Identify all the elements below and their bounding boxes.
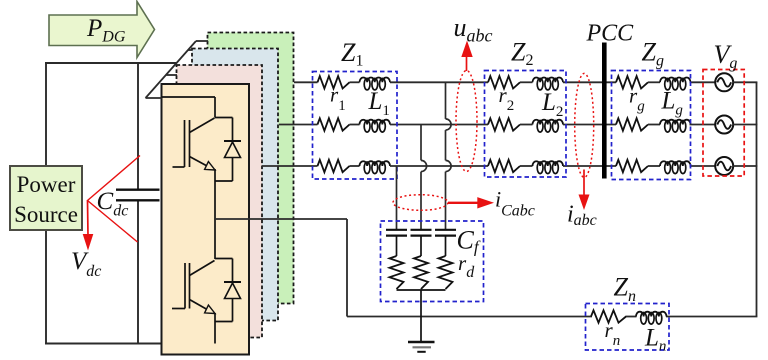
inductor Lg phase 3 xyxy=(660,161,690,166)
wire phase 2 Z2 to Zg xyxy=(563,124,616,126)
capacitor C_f phase 1 xyxy=(386,229,407,231)
svg-text:Ln: Ln xyxy=(644,325,666,355)
wire bottom neutral line to Zn xyxy=(347,316,592,318)
wire fan stub green xyxy=(196,40,208,42)
resistor rg phase 2 xyxy=(616,118,648,130)
inverter phase layer box (blue) xyxy=(192,49,278,321)
resistor r_d phase 1 xyxy=(390,256,404,289)
wire Zn internal xyxy=(626,316,637,318)
PCC bus bar xyxy=(602,43,607,179)
svg-text:Vg: Vg xyxy=(714,40,738,72)
svg-text:Cdc: Cdc xyxy=(97,188,129,220)
wire phase 2 inverter to Z1 xyxy=(279,124,318,126)
resistor r_n xyxy=(591,310,626,322)
wire phase 3 Zg to source xyxy=(690,165,716,167)
svg-text:Vdc: Vdc xyxy=(71,248,101,280)
wire power source bottom lead xyxy=(45,230,47,345)
AC source V_g phase 1 xyxy=(715,73,733,91)
arrow i_abc xyxy=(583,170,585,197)
wire phase 3 inverter to Z1 xyxy=(262,165,318,167)
V_dc red arrow xyxy=(87,201,90,237)
wire to ground xyxy=(420,290,422,342)
impedance block Zn box xyxy=(586,304,670,351)
svg-text:rd: rd xyxy=(458,251,475,281)
resistor r1 phase 2 xyxy=(318,118,350,130)
svg-text:Power: Power xyxy=(17,172,76,197)
transistor Q1 (top IGBT) xyxy=(173,118,216,170)
wire inverter top rail xyxy=(162,96,216,98)
wire phase 1 inverter to Z1 xyxy=(294,81,318,83)
svg-text:uabc: uabc xyxy=(454,13,493,46)
capacitor C_dc plates xyxy=(116,189,160,191)
wire DC bus upper segment xyxy=(137,63,139,189)
wire power source top lead xyxy=(45,63,47,167)
resistor rg phase 1 xyxy=(616,76,648,88)
wire phase 1 Z2 to Zg xyxy=(563,81,616,83)
resistor r1 phase 1 xyxy=(318,76,350,88)
svg-text:Lg: Lg xyxy=(661,88,684,119)
arrow i_Cabc xyxy=(448,202,479,204)
svg-text:L1: L1 xyxy=(368,88,390,119)
svg-text:iabc: iabc xyxy=(567,202,597,230)
inverter phase layer box (green, back) xyxy=(208,33,294,304)
wire phase 1 xyxy=(648,81,660,83)
wire phase 3 xyxy=(648,165,660,167)
node u_abc measurement ellipse xyxy=(456,71,477,172)
capacitor C_f phase 3 xyxy=(435,229,456,231)
AC source V_g phase 3 xyxy=(715,157,733,175)
wire fan stub blue xyxy=(188,49,193,51)
wire phase 2 source to right bus xyxy=(733,124,757,126)
resistor r1 phase 3 xyxy=(318,160,350,172)
wire phase 1 source to right bus xyxy=(733,81,757,83)
inverter main box (orange, front) xyxy=(162,84,250,355)
ground xyxy=(408,342,435,352)
svg-text:PCC: PCC xyxy=(586,21,635,47)
impedance block Z1 box xyxy=(313,72,398,180)
inductor L1 phase 2 xyxy=(360,120,390,125)
wire neutral drop xyxy=(346,219,348,317)
wire fan stub pink xyxy=(167,74,178,76)
resistor r2 phase 3 xyxy=(488,160,520,172)
wire phase 2 xyxy=(350,124,360,126)
wire phase 1 xyxy=(520,81,533,83)
impedance block Z2 box xyxy=(485,71,567,178)
wire phase 2 Z1 to Z2 xyxy=(390,124,488,126)
inductor L2 phase 1 xyxy=(533,78,563,83)
inductor L1 phase 3 xyxy=(360,161,390,166)
svg-text:Zg: Zg xyxy=(642,38,664,70)
inductor Lg phase 2 xyxy=(660,120,690,125)
wire Zn to right bus xyxy=(666,316,757,318)
node i_abc measurement ellipse xyxy=(575,73,594,177)
filter C_f / r_d box xyxy=(381,221,484,302)
impedance block Zg box xyxy=(612,71,691,180)
wire phase 3 xyxy=(520,165,533,167)
wire inverter neutral mid rail xyxy=(215,218,347,220)
svg-text:Zn: Zn xyxy=(614,273,636,306)
node i_Cabc measurement ellipse xyxy=(393,195,448,211)
inductor L1 phase 1 xyxy=(360,78,390,83)
wire phase 3 Z2 to Zg xyxy=(563,165,616,167)
wire phase 3 source to right bus xyxy=(733,165,757,167)
resistor r_d phase 3 xyxy=(439,256,453,289)
power source box xyxy=(10,166,82,230)
wire bottom emitter to DC- rail xyxy=(214,313,216,344)
wire tap phase2 to C_f (with hop) xyxy=(420,125,422,161)
wire DC bus lower segment xyxy=(137,201,139,344)
inverter phase layer box (pink) xyxy=(177,65,263,338)
svg-text:Z1: Z1 xyxy=(341,38,363,70)
inductor L2 phase 2 xyxy=(533,120,563,125)
wire phase 2 xyxy=(648,124,660,126)
V_dc red measurement bracket xyxy=(88,156,141,243)
wire inverter leg center xyxy=(214,169,216,259)
svg-text:Z2: Z2 xyxy=(511,38,533,70)
capacitor C_f phase 2 xyxy=(411,229,432,231)
wire fan stub orange xyxy=(146,97,163,99)
resistor rg phase 3 xyxy=(616,160,648,172)
inductor Lg phase 1 xyxy=(660,78,690,83)
wire fan diagonal to layer corners xyxy=(146,41,197,98)
resistor r2 phase 2 xyxy=(488,118,520,130)
wire phase 1 Zg to source xyxy=(690,81,716,83)
wire right return bus xyxy=(756,82,758,316)
resistor r_d phase 2 xyxy=(414,256,428,289)
svg-text:iCabc: iCabc xyxy=(495,187,535,220)
wire phase 1 xyxy=(350,81,360,83)
inductor L_n xyxy=(636,312,666,317)
wire bottom DC- rail xyxy=(45,343,216,345)
wire phase 2 xyxy=(520,124,533,126)
arrow u_abc xyxy=(466,56,468,71)
wire tap phase3 to C_f xyxy=(396,166,398,230)
inductor L2 phase 3 xyxy=(533,161,563,166)
wire r_d bottom connector xyxy=(397,289,446,291)
wire phase 3 xyxy=(350,165,360,167)
wire tap phase1 to C_f (with hops) xyxy=(445,82,447,119)
diode D1 (top freewheel) xyxy=(215,118,241,182)
wire top DC+ from power source to inverter stack xyxy=(45,62,177,64)
grid source V_g box xyxy=(703,70,744,177)
transistor Q2 (bottom IGBT) xyxy=(172,261,215,314)
svg-text:Source: Source xyxy=(14,202,78,227)
diode D2 (bottom freewheel) xyxy=(215,259,241,322)
wire phase 1 Z1 to Z2 xyxy=(390,81,488,83)
arrow P_DG power flow xyxy=(49,2,155,58)
AC source V_g phase 2 xyxy=(715,116,733,134)
wire phase 3 Z1 to Z2 xyxy=(390,165,488,167)
resistor r2 phase 1 xyxy=(488,76,520,88)
svg-text:L2: L2 xyxy=(541,89,563,120)
wire phase 2 Zg to source xyxy=(690,124,716,126)
